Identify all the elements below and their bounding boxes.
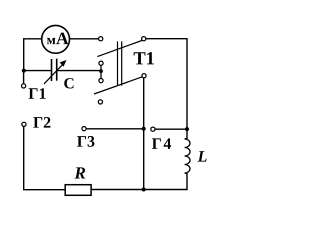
wire strip vertical bbox=[100, 65, 102, 78]
transformer T1 core line 1 bbox=[117, 41, 119, 85]
terminal Г4 socket bbox=[151, 127, 155, 131]
wire inductor to bottom-right corner bbox=[91, 173, 187, 190]
terminal socket mid-upper on strip bbox=[99, 61, 103, 65]
junction dot on strip bbox=[99, 69, 103, 73]
terminal socket lower-right of T1 bbox=[142, 74, 146, 78]
wire Г4 to right rail bbox=[155, 128, 187, 130]
wire T1 top to right rail bbox=[146, 39, 187, 129]
capacitor C plate 1 bbox=[51, 59, 53, 81]
wire right rail to inductor bbox=[186, 129, 188, 139]
wire Г3 to vertical bbox=[86, 128, 143, 130]
wire junction Г1 to capacitor bbox=[24, 70, 51, 72]
inductor L coil bbox=[185, 138, 190, 173]
wire from node Г1 junction up and right to milliammeter bbox=[24, 39, 42, 71]
junction dot at Г1 bbox=[22, 69, 26, 73]
terminal socket bottom-left of T1 bbox=[98, 100, 102, 104]
wire capacitor to transformer strip bbox=[58, 70, 101, 72]
capacitor C variable arrow shaft bbox=[44, 64, 63, 84]
terminal socket mid-lower on strip bbox=[99, 79, 103, 83]
capacitor C plate 2 bbox=[56, 59, 58, 81]
terminal Г2 socket bbox=[22, 122, 26, 126]
svg-text:Г1: Г1 bbox=[28, 86, 46, 103]
wire T1 lower-right terminal down to bottom rail bbox=[143, 78, 145, 190]
terminal Г1 socket bbox=[22, 84, 26, 88]
milliammeter PA1 circle bbox=[42, 25, 70, 53]
transformer T1 core line 2 bbox=[121, 41, 123, 85]
svg-text:Т1: Т1 bbox=[133, 49, 155, 69]
terminal socket top-right of T1 bbox=[142, 37, 146, 41]
wire resistor to bottom-left corner and up to Г2 bbox=[24, 127, 65, 190]
wire Г1 socket stub bbox=[23, 71, 25, 84]
transformer T1 winding 1 bbox=[97, 41, 141, 57]
terminal Г3 socket bbox=[82, 127, 86, 131]
resistor R box bbox=[65, 185, 91, 196]
svg-text:R: R bbox=[74, 163, 86, 182]
wire milliammeter to transformer socket bbox=[70, 38, 99, 40]
svg-text:Г3: Г3 bbox=[77, 134, 95, 151]
svg-text:L: L bbox=[197, 149, 208, 166]
svg-text:Г4: Г4 bbox=[152, 136, 173, 153]
transformer T1 winding 2 bbox=[94, 77, 143, 94]
terminal socket top-left of T1 bbox=[99, 37, 103, 41]
svg-text:C: C bbox=[64, 75, 75, 92]
junction dot Г3 wire bbox=[142, 127, 146, 131]
junction dot right rail bbox=[185, 127, 189, 131]
capacitor C arrow head bbox=[60, 60, 67, 67]
svg-text:Г2: Г2 bbox=[33, 115, 51, 132]
junction dot bottom rail bbox=[142, 188, 146, 192]
